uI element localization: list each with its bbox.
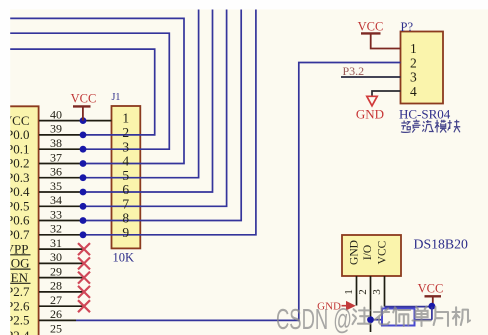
VCC power symbol above HC-SR04 pin1 (358, 20, 384, 34)
HC-SR04 pin4 wire to GND (372, 91, 401, 96)
wire P0.1 row to J1 pin3, up and left off-sheet (0, 33, 169, 149)
wire P0.3 row to J1 pin5, up to sheet top (83, 10, 199, 178)
svg-text:2: 2 (122, 125, 129, 140)
svg-text:VCC: VCC (358, 20, 384, 34)
svg-text:5: 5 (122, 168, 129, 183)
wire P0.5 row to J1 pin7, up to sheet top (83, 10, 227, 207)
no-ERC X mark pin 27 (78, 300, 90, 312)
active-low underline PSEN (0, 282, 31, 284)
svg-text:9: 9 (122, 225, 129, 240)
DS18B20 pin2 line (370, 276, 372, 332)
active-low underline ALE/PROG (0, 268, 31, 270)
svg-text:8: 8 (122, 211, 129, 226)
pull-up resistor body (382, 309, 415, 326)
IC pin 39 pin line (39, 134, 83, 136)
svg-text:3: 3 (122, 139, 129, 154)
svg-text:1: 1 (343, 289, 355, 295)
white crop padding top (0, 0, 488, 9)
svg-text:VCC: VCC (418, 282, 444, 296)
IC pin 36 pin line (39, 177, 83, 179)
svg-text:29: 29 (50, 264, 62, 278)
svg-text:37: 37 (50, 150, 62, 164)
wire P0.0 row to J1 pin2, up and left off-sheet (0, 49, 155, 135)
no-ERC X mark pin 30 (78, 257, 90, 269)
DS18B20 body (342, 235, 401, 276)
junction dot row40/VCC (80, 117, 87, 124)
IC pin 32 pin line (39, 234, 83, 236)
svg-text:CSDN @: CSDN @ (276, 304, 352, 335)
svg-text:J1: J1 (112, 92, 121, 103)
svg-text:4: 4 (122, 154, 129, 169)
wire resistor right lead (415, 319, 432, 321)
svg-text:30: 30 (50, 250, 62, 264)
svg-text:35: 35 (50, 179, 62, 193)
IC port labels VCC P0.0-P0.7 EA/VPP ALE/PROG PSEN P2.7-P2.5 (0, 113, 30, 335)
svg-text:3: 3 (410, 70, 417, 85)
DS18B20 rotated pin numbers 1 2 3 (343, 289, 383, 295)
junction dot VCC (429, 303, 436, 310)
svg-text:40: 40 (50, 107, 62, 121)
svg-text:VCC: VCC (71, 92, 97, 106)
DS18B20 pin1 line (356, 276, 358, 306)
svg-text:36: 36 (50, 165, 62, 179)
wire P0.2 row to J1 pin4, up and left off-sheet (0, 18, 184, 163)
svg-text:P?: P? (401, 20, 414, 34)
wire P2.5 row to HC-SR04 pin2 (76, 63, 401, 321)
svg-text:39: 39 (50, 122, 62, 136)
wire P0.4 row to J1 pin6, up to sheet top (83, 10, 213, 193)
no-ERC X mark pin 31 (78, 243, 90, 255)
wire P0.7 row to J1 pin9, up to sheet top (83, 10, 256, 235)
IC pin 40 (VCC) pin line (39, 120, 112, 122)
IC pin 38 pin line (39, 148, 83, 150)
J1 pin numbers 1-9 (122, 111, 129, 240)
IC pin 31 pin line (39, 248, 84, 250)
wire resistor left lead to pin2 (371, 319, 383, 321)
svg-text:38: 38 (50, 136, 62, 150)
svg-text:33: 33 (50, 207, 62, 221)
IC pin 35 pin line (39, 191, 83, 193)
IC pin 30 pin line (39, 262, 84, 264)
svg-text:2: 2 (357, 289, 369, 295)
GND arrow symbol (open triangle) (367, 96, 377, 106)
HC-SR04 pin numbers 1-4 (410, 41, 417, 99)
junction dot row34 (80, 203, 87, 210)
svg-text:GND: GND (349, 240, 361, 265)
IC pin numbers 40..25 (50, 107, 62, 335)
IC pin 27 pin line (39, 305, 84, 307)
svg-text:6: 6 (122, 182, 129, 197)
wire VCC to HC-SR04 pin1 (371, 33, 401, 48)
IC pin 37 pin line (39, 163, 83, 165)
active-low underline EA/VPP (0, 254, 31, 256)
svg-text:25: 25 (50, 322, 62, 335)
svg-text:26: 26 (50, 307, 62, 321)
svg-text:VCC: VCC (377, 240, 389, 264)
VCC power symbol above J1 (71, 92, 97, 121)
wire VCC junction down (431, 307, 433, 320)
svg-text:31: 31 (50, 236, 62, 250)
wire DS18B20 pin3 to VCC (385, 306, 432, 308)
wire P0.6 row to J1 pin8, up to sheet top (83, 10, 241, 221)
no-ERC X mark pin 29 (78, 272, 90, 284)
svg-text:I/O: I/O (362, 245, 374, 260)
chinese text 超声波模块 (drawn strokes) (401, 120, 460, 133)
IC pin 33 pin line (39, 220, 83, 222)
svg-text:1: 1 (410, 41, 417, 56)
IC pin 29 pin line (39, 277, 84, 279)
CSDN watermark (276, 304, 470, 335)
svg-text:P3.2: P3.2 (343, 64, 365, 78)
svg-text:2: 2 (410, 55, 417, 70)
junction dot row39 (80, 132, 87, 139)
svg-text:DS18B20: DS18B20 (414, 237, 469, 252)
junction dot pin2 (367, 316, 374, 323)
svg-text:7: 7 (122, 196, 129, 211)
J1 resistor network body (112, 106, 141, 248)
VCC power symbol right of DS18B20 (418, 282, 444, 307)
svg-text:32: 32 (50, 222, 62, 236)
IC pin 34 pin line (39, 205, 83, 207)
svg-text:10K: 10K (113, 251, 135, 265)
svg-text:HC-SR04: HC-SR04 (399, 106, 451, 121)
svg-text:1: 1 (122, 111, 129, 126)
GND power symbol at DS18B20 pin1 (right-pointing arrow) (317, 301, 356, 313)
IC pin 26 pin line (39, 319, 76, 321)
junction dot row36 (80, 174, 87, 181)
svg-text:28: 28 (50, 279, 62, 293)
svg-text:27: 27 (50, 293, 62, 307)
junction dot row38 (80, 146, 87, 153)
DS18B20 pin3 line (384, 276, 386, 307)
connector P? HC-SR04 body (401, 32, 444, 104)
DS18B20 rotated pin labels (349, 240, 389, 265)
HC-SR04 pin3 stub wire with net label P3.2 (341, 76, 401, 78)
junction dot row32 (80, 231, 87, 238)
white crop padding left (0, 0, 10, 335)
no-ERC X mark pin 28 (78, 286, 90, 298)
IC U1 body (AT89C51, cut off at left edge) (0, 106, 39, 335)
junction dot row35 (80, 189, 87, 196)
svg-text:GND: GND (356, 106, 384, 121)
svg-text:3: 3 (371, 289, 383, 295)
junction dot row33 (80, 217, 87, 224)
IC pin 28 pin line (39, 291, 84, 293)
junction dot row37 (80, 160, 87, 167)
svg-text:4: 4 (410, 84, 417, 99)
svg-text:34: 34 (50, 193, 62, 207)
